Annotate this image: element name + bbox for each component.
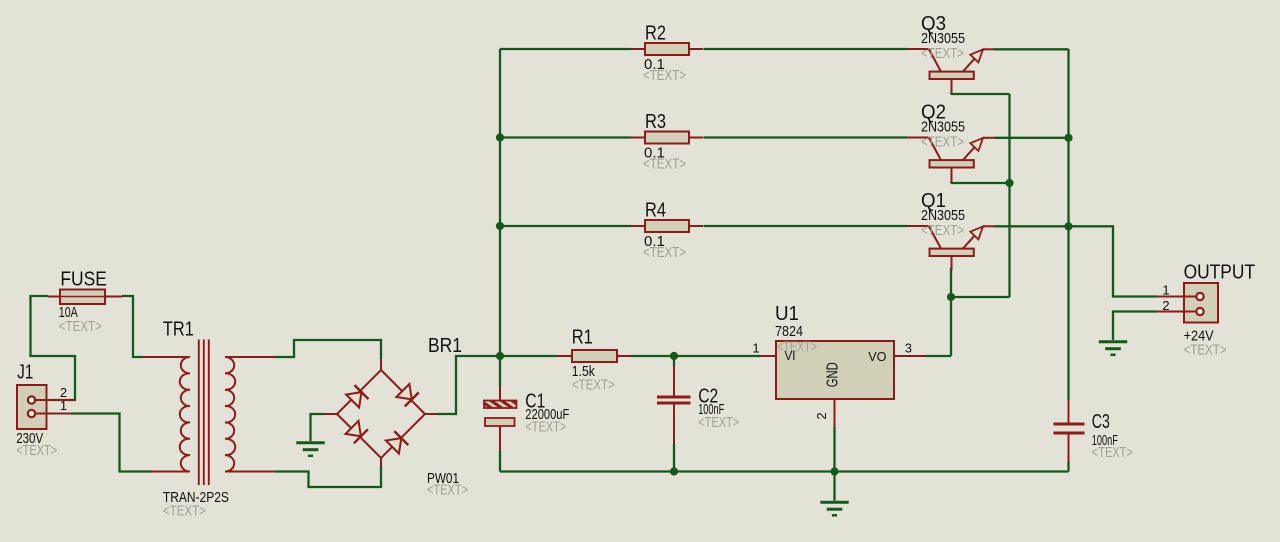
svg-text:3: 3 [905, 341, 912, 356]
svg-text:TR1: TR1 [163, 318, 194, 341]
svg-text:<TEXT>: <TEXT> [643, 156, 686, 172]
svg-text:R4: R4 [645, 199, 666, 222]
svg-text:1: 1 [752, 341, 759, 356]
svg-text:J1: J1 [17, 361, 33, 384]
svg-text:C3: C3 [1092, 410, 1110, 433]
svg-text:2N3055: 2N3055 [921, 119, 965, 136]
svg-text:<TEXT>: <TEXT> [921, 223, 964, 239]
svg-text:2: 2 [814, 412, 829, 419]
svg-text:2: 2 [1162, 298, 1169, 313]
svg-text:R1: R1 [572, 326, 593, 349]
svg-text:<TEXT>: <TEXT> [921, 135, 964, 151]
svg-text:<TEXT>: <TEXT> [163, 504, 206, 520]
svg-text:VI: VI [785, 348, 796, 363]
svg-text:<TEXT>: <TEXT> [427, 483, 468, 499]
svg-text:<TEXT>: <TEXT> [698, 415, 739, 431]
svg-text:<TEXT>: <TEXT> [643, 68, 686, 84]
svg-text:R3: R3 [645, 110, 666, 133]
svg-text:<TEXT>: <TEXT> [59, 319, 102, 335]
svg-text:VO: VO [868, 349, 886, 364]
svg-text:OUTPUT: OUTPUT [1184, 260, 1256, 283]
svg-text:FUSE: FUSE [60, 268, 107, 291]
svg-text:1: 1 [60, 398, 67, 413]
svg-text:<TEXT>: <TEXT> [572, 378, 615, 394]
svg-text:1: 1 [1162, 283, 1169, 298]
svg-text:<TEXT>: <TEXT> [1092, 445, 1133, 461]
svg-text:<TEXT>: <TEXT> [525, 420, 566, 436]
svg-text:BR1: BR1 [428, 334, 462, 357]
svg-text:<TEXT>: <TEXT> [1184, 343, 1227, 359]
svg-text:<TEXT>: <TEXT> [16, 443, 57, 459]
svg-text:<TEXT>: <TEXT> [643, 245, 686, 261]
svg-text:<TEXT>: <TEXT> [777, 339, 817, 355]
svg-text:2N3055: 2N3055 [921, 207, 965, 224]
svg-text:<TEXT>: <TEXT> [921, 46, 964, 62]
svg-text:U1: U1 [775, 302, 799, 325]
svg-text:2N3055: 2N3055 [921, 30, 965, 47]
svg-text:GND: GND [825, 362, 842, 387]
svg-text:R2: R2 [645, 22, 666, 45]
svg-text:7824: 7824 [775, 323, 803, 340]
